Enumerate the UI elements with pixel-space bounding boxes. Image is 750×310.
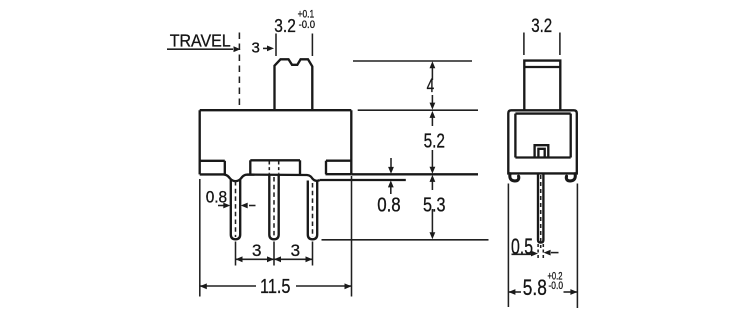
svg-text:5.2: 5.2 <box>424 130 445 152</box>
svg-text:TRAVEL: TRAVEL <box>170 31 231 51</box>
svg-text:5.8: 5.8 <box>523 275 547 300</box>
svg-text:4: 4 <box>427 76 435 97</box>
svg-text:0.8: 0.8 <box>377 194 401 217</box>
svg-text:-0.0: -0.0 <box>549 280 564 292</box>
svg-text:3: 3 <box>252 40 260 57</box>
svg-text:3: 3 <box>252 241 261 260</box>
svg-text:11.5: 11.5 <box>260 276 291 298</box>
svg-text:3: 3 <box>291 241 300 260</box>
svg-text:3.2: 3.2 <box>531 16 552 37</box>
svg-text:5.3: 5.3 <box>423 195 446 217</box>
svg-text:3.2: 3.2 <box>274 16 296 36</box>
svg-text:-0.0: -0.0 <box>299 19 315 31</box>
